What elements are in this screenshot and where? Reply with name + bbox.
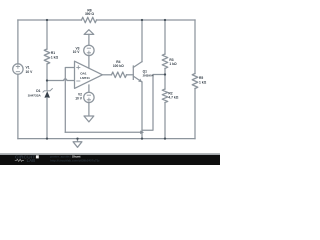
wire D1 to bottom rail: [46, 98, 48, 139]
wire R1 to D1: [46, 64, 48, 91]
wire R2 to bottom rail: [164, 103, 166, 139]
resistor R5: [192, 74, 198, 89]
svg-text:LM741: LM741: [80, 76, 90, 80]
svg-text:OA1: OA1: [80, 72, 87, 76]
wire zener node to op-amp minus input: [47, 79, 75, 81]
wire R1 top: [46, 20, 48, 49]
wire R5 top: [194, 20, 196, 74]
svg-text:100 kΩ: 100 kΩ: [113, 64, 124, 68]
node collector top rail: [141, 19, 143, 21]
svg-text:LAB: LAB: [27, 158, 36, 163]
wire arrow stem to V3: [88, 34, 90, 45]
svg-text:V1: V1: [26, 66, 30, 70]
wire divider node to R2: [164, 75, 166, 90]
wire Q1 emitter to bottom rail: [141, 82, 143, 139]
wire left vertical lower: [17, 74, 19, 138]
resistor R3: [162, 54, 168, 68]
svg-text:10 V: 10 V: [26, 70, 34, 74]
op-amp U1 OA1 body: [75, 61, 103, 88]
wire Q1 collector to top rail: [141, 20, 143, 62]
svg-text:390 Ω: 390 Ω: [85, 12, 94, 16]
wire R3 top: [164, 20, 166, 54]
power arrow up (V3 top): [84, 30, 94, 35]
wire top rail left segment: [18, 19, 82, 21]
footer bar: [0, 153, 220, 155]
resistor R1: [44, 49, 50, 64]
voltage source V2: [84, 92, 94, 102]
diode D1 body: [44, 91, 50, 97]
svg-text:10 V: 10 V: [75, 97, 83, 101]
diode D1 cathode bar (zener): [43, 89, 52, 93]
op-amp minus glyph: [77, 80, 80, 82]
power arrow down (V2 bottom): [84, 116, 94, 122]
node R3 top rail: [164, 19, 166, 21]
svg-text:R5: R5: [199, 76, 203, 80]
wire top rail right segment: [97, 19, 196, 21]
wire left vertical upper: [17, 20, 19, 64]
wire feedback horizontal to emitter node: [65, 131, 142, 133]
voltage source V3: [84, 45, 94, 55]
resistor R4: [112, 72, 127, 78]
wire op-amp output: [102, 74, 111, 76]
wire op-amp plus input: [65, 68, 74, 133]
transistor Q1: [133, 62, 142, 82]
svg-text:http://circuitlab.com/c629b245: http://circuitlab.com/c629b2457y73z: [50, 158, 100, 162]
node R1 top rail: [46, 19, 48, 21]
op-amp plus glyph: [77, 66, 80, 69]
wire R5 to bottom rail: [194, 89, 196, 139]
wire bottom rail: [18, 138, 195, 140]
wire op-amp V- pin to V2: [88, 85, 90, 92]
node divider mid: [164, 73, 166, 75]
svg-text:1 kΩ: 1 kΩ: [199, 81, 207, 85]
wire V3 to op-amp V+ pin: [88, 56, 90, 68]
svg-text:1N4733A: 1N4733A: [28, 94, 42, 98]
wire divider node jog to emitter: [142, 75, 165, 131]
transistor Q1 emitter arrow: [138, 79, 142, 83]
ground arrow stem: [77, 139, 79, 142]
node R2 bottom rail: [164, 137, 166, 139]
svg-text:D1: D1: [36, 89, 40, 93]
feedback arrowhead: [140, 131, 144, 135]
resistor R8: [82, 17, 97, 23]
node zener ref: [46, 79, 48, 81]
junction node dots: [46, 19, 166, 140]
svg-text:2N3904: 2N3904: [143, 74, 154, 78]
wire R4 to Q1 base: [127, 74, 134, 76]
wire V2 to down arrow: [88, 103, 90, 116]
wire R3 to divider node: [164, 68, 166, 74]
svg-text:1 kΩ: 1 kΩ: [169, 62, 177, 66]
svg-text:10 V: 10 V: [73, 50, 81, 54]
node emitter bottom rail: [141, 137, 143, 139]
node D1 bottom rail: [46, 137, 48, 139]
svg-text:4.7 kΩ: 4.7 kΩ: [168, 95, 178, 99]
ground arrow down: [73, 142, 82, 148]
resistor R2: [162, 89, 168, 103]
node ground stem: [76, 137, 78, 139]
svg-text:1 kΩ: 1 kΩ: [51, 56, 59, 60]
voltage source V1: [13, 64, 23, 74]
